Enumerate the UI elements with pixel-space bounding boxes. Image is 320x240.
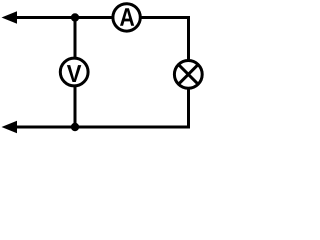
node junction dot top [71, 13, 79, 21]
wire bottom horizontal [8, 126, 190, 129]
ammeter A [113, 4, 140, 31]
wire voltmeter branch vertical [74, 16, 77, 129]
supply lead arrow bottom [2, 121, 18, 134]
wire top horizontal [8, 16, 190, 19]
node junction dot bottom [71, 123, 79, 131]
supply lead arrow top [2, 11, 18, 24]
lamp [174, 61, 202, 89]
wire right vertical [187, 16, 190, 129]
voltmeter V [60, 58, 88, 86]
